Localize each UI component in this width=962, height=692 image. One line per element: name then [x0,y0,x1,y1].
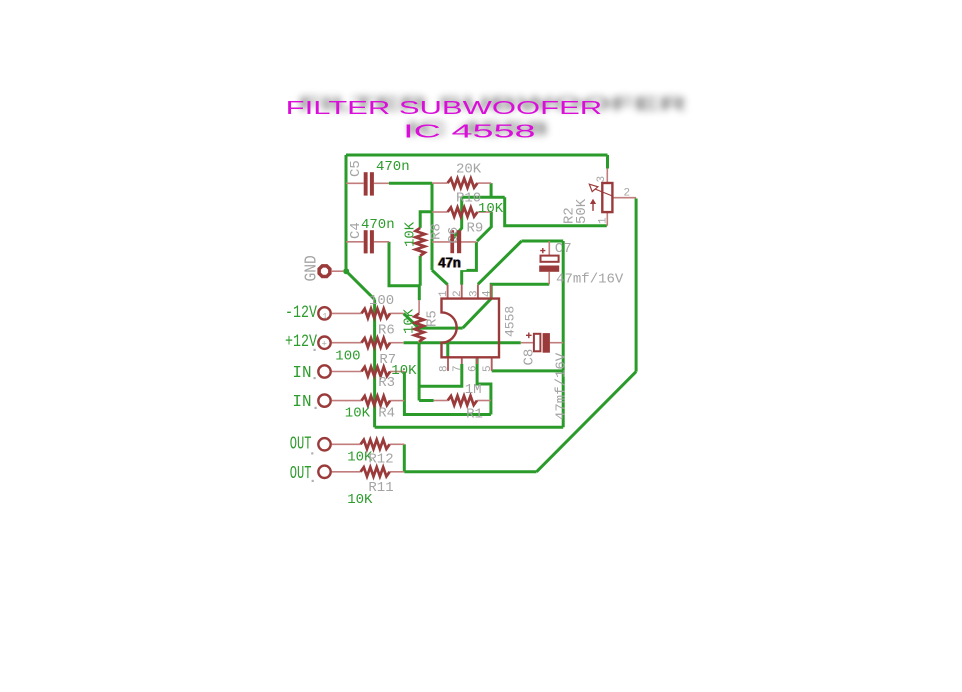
wire C4 vertical [389,242,420,286]
wire R mix bottom [404,372,491,415]
wire R8 to R5 [418,286,421,300]
wire diagonal to pin 3 [478,241,522,284]
wire pin 5 rail [492,369,564,372]
wire C6 right lead [454,241,476,243]
resistor R7 [362,338,391,347]
connector +12V pad [318,337,330,349]
wire R7 right lead [390,342,404,344]
op-amp IC1 4558 [442,299,500,358]
wire pin 4 internal diagonal [463,299,492,329]
svg-text:IN: IN [292,393,311,412]
svg-text:4: 4 [482,290,494,297]
resistor R6 [362,309,391,318]
wire R11 right lead [390,471,405,473]
wire C5 left lead [346,182,364,184]
svg-text:4558: 4558 [503,306,518,337]
connector IN2 pad [318,394,330,406]
pad dot OUT2 [312,480,314,482]
svg-text:100: 100 [335,349,360,365]
wire left rail [345,155,348,271]
wire node vertical [431,183,434,270]
svg-text:R3: R3 [378,375,395,391]
wire R9 left lead [432,211,448,213]
wire R6 diagonal [404,313,455,328]
wire R6 right lead [390,312,404,314]
svg-text:OUT: OUT [290,464,312,484]
connector OUT1 pad [318,438,330,450]
connector -12V pad [318,307,330,319]
wire R2 pin3 lead [606,169,608,184]
wire right C7 rail [562,241,565,427]
svg-text:6: 6 [468,365,480,372]
wire GND diagonal [346,271,374,299]
resistor R9 [448,207,478,216]
label 47n overlay [436,254,467,272]
svg-text:R4: R4 [378,406,395,422]
wire C8 right lead [550,342,563,344]
wire OUT rail [404,470,536,473]
resistor R8 [416,228,425,256]
node GND junction [343,268,349,274]
wire R10 right drop [490,183,493,197]
svg-text:10K: 10K [391,363,417,379]
svg-text:1M: 1M [465,382,482,398]
resistor R4 [362,396,391,405]
svg-text:R6: R6 [378,323,395,339]
resistor R1 [448,396,477,405]
capacitor C8 [526,333,550,353]
wire IN2 pad lead [332,400,362,402]
wire R10 net to R2 pin1 [505,197,607,226]
resistor R3 [362,367,391,376]
title FILTER SUBWOOFER IC 4558 [286,93,688,142]
wire R5 top lead [418,300,420,313]
wire C7 bottom lead [548,272,550,285]
wire pin 6 branch [477,357,491,414]
wire R1 left lead [434,400,448,402]
svg-text:GND: GND [302,255,321,281]
wire C7 top lead [548,241,550,256]
pin 7 stub [461,357,463,364]
wire OUT1 pad lead [332,443,361,445]
svg-text:10K: 10K [347,492,373,508]
svg-text:470n: 470n [376,159,410,175]
svg-text:R12: R12 [368,452,393,468]
svg-text:5: 5 [482,365,494,372]
pin 1 stub [447,284,449,298]
wire -12V pad lead [332,312,362,314]
wire R2 wiper vertical [635,199,638,372]
svg-text:C8: C8 [522,349,538,366]
svg-text:47mf/16V: 47mf/16V [554,352,570,420]
pad dot IN2 [315,407,317,409]
wire C8 left lead [521,342,534,344]
capacitor C4 [364,230,374,253]
svg-text:47mf/16V: 47mf/16V [556,271,624,287]
resistor R11 [361,467,390,476]
svg-text:50K: 50K [574,198,590,224]
wire C7 bottom to pin 4 [491,284,549,298]
wire R10 net horizontal [462,196,505,199]
wire GND vertical [373,299,376,427]
pin 6 stub [476,357,478,364]
svg-text:2: 2 [452,290,464,297]
pin 8 stub [447,357,449,371]
wire R7 net vertical [418,343,421,401]
wire diagonal to pin 1 [432,270,448,285]
wire R4 right lead [390,400,404,402]
svg-text:R1: R1 [466,407,483,423]
wire R8 bottom node [419,256,422,286]
wire rail to pin 8 [446,343,449,358]
wire +12V pad lead [332,342,362,344]
wire OUT2 pad lead [332,471,361,473]
wire node to R8 top [420,212,432,228]
svg-text:R5: R5 [425,310,441,327]
svg-text:10K: 10K [403,221,419,247]
wire R2 pin1 lead [606,212,608,226]
svg-text:47n: 47n [438,254,461,271]
wire R3 right lead [390,371,404,373]
resistor R5 [415,314,424,342]
wire C6 left lead [432,241,450,243]
wire GND pad lead [332,270,343,272]
capacitor C7 [539,248,559,272]
pin 3 stub [477,284,479,298]
svg-text:C5: C5 [348,160,364,177]
pad dot IN1 [314,377,316,379]
svg-text:3: 3 [596,176,608,183]
svg-text:100: 100 [369,293,394,309]
potentiometer R2 [589,183,612,212]
wire R2 top feed [606,155,609,169]
pin 2 stub [461,284,463,298]
svg-text:8: 8 [438,365,450,372]
wire bottom rail [375,426,564,429]
svg-text:R9: R9 [467,220,484,236]
wire R1 right lead [477,400,491,402]
pin 4 stub [490,284,492,298]
svg-text:+: + [322,340,327,350]
wire C4 right lead [374,241,389,243]
svg-text:7: 7 [452,365,464,372]
svg-text:1: 1 [598,217,610,224]
svg-text:10K: 10K [402,308,418,334]
svg-text:+12V: +12V [285,332,317,352]
wire R9 right lead [477,211,491,213]
svg-text:10K: 10K [478,201,504,217]
svg-text:C7: C7 [555,241,572,257]
svg-text:IN: IN [292,364,311,383]
connector IN1 pad [318,365,330,377]
wire IN1 pad lead [332,371,362,373]
wire R10 net left drop [451,197,462,241]
wire top rail [346,154,608,157]
svg-text:1: 1 [438,290,450,297]
svg-text:1: 1 [323,313,328,322]
pad dot +12V [314,349,316,351]
wire OUT join vertical [403,444,406,472]
wire OUT diagonal [537,372,637,472]
svg-text:R8: R8 [429,223,445,240]
svg-text:C6: C6 [446,227,462,244]
svg-text:FILTER SUBWOOFER: FILTER SUBWOOFER [286,97,603,118]
wire R2 pin2 lead [612,197,636,199]
wire C7 top [522,240,564,243]
wire main mid rail [404,341,521,344]
svg-text:2: 2 [624,188,631,200]
svg-text:OUT: OUT [290,435,312,455]
wire pin 7 branch [419,364,462,386]
svg-text:3: 3 [468,290,480,297]
connector GND pad [319,266,330,277]
svg-text:20K: 20K [456,162,482,178]
capacitor C6 [450,230,461,253]
resistor R12 [361,440,390,449]
svg-text:10K: 10K [345,406,371,422]
wire R12 right lead [390,443,405,445]
wire R10 left lead [432,182,448,184]
connector OUT2 pad [318,466,330,478]
wire R5 bottom lead [418,342,420,343]
capacitor C5 [364,172,374,195]
pin 5 stub [491,357,493,371]
resistor R10 [448,179,478,188]
wire R1 left feed [419,399,434,402]
svg-text:-12V: -12V [285,303,317,323]
wire C6 right to pin 2 [462,242,477,285]
pad dot OUT1 [311,452,313,454]
svg-text:IC 4558: IC 4558 [403,121,535,142]
wire R10 right lead [477,182,491,184]
svg-text:470n: 470n [361,217,395,233]
wire C5 to node [389,182,432,185]
wire internal horizontal [455,327,463,330]
wire R9 right drop [477,212,491,241]
wire C5 right lead [374,182,389,184]
wire C4 left lead [346,241,364,243]
